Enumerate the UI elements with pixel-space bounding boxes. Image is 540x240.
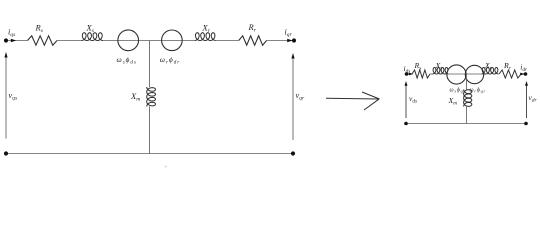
node: right bottom-left terminal: [404, 122, 408, 126]
transform arrow: [326, 97, 379, 100]
inductor X_r: [195, 33, 216, 41]
svg-text:vdr: vdr: [529, 93, 538, 104]
svg-text:Xm: Xm: [448, 96, 458, 107]
stray mark: [164, 166, 167, 167]
svg-text:Rr: Rr: [248, 22, 257, 34]
inductor X_m (right): [464, 90, 472, 107]
voltage arrow v_dr: [526, 83, 528, 118]
current arrow i_dr: [520, 73, 525, 76]
voltage arrow v_ds: [405, 83, 407, 118]
current arrow i_qs: [11, 39, 16, 42]
node: right bottom-right terminal: [524, 122, 528, 126]
svg-text:Xs: Xs: [86, 22, 94, 34]
wire: right middle branch: [465, 74, 467, 90]
svg-text:Rr: Rr: [503, 61, 512, 72]
svg-text:vds: vds: [409, 94, 417, 105]
svg-text:Rs: Rs: [35, 22, 43, 34]
node: left circuit top-right terminal: [292, 38, 296, 42]
inductor X_s: [82, 33, 104, 41]
current arrow i_ds: [409, 73, 414, 76]
wire: right circuit bottom rail: [406, 123, 526, 125]
wire: middle branch (node between sources down to bottom rail): [149, 41, 151, 88]
wire: R_s to X_s: [57, 40, 82, 42]
svg-text:ids: ids: [404, 64, 411, 75]
wire: left circuit bottom rail: [6, 153, 293, 155]
resistor R_s: [28, 36, 58, 45]
svg-text:idr: idr: [520, 62, 528, 73]
svg-text:iqr: iqr: [285, 28, 293, 39]
voltage arrow v_qs: [5, 55, 7, 139]
node: bottom-left terminal: [4, 151, 8, 155]
node: right circuit top-left terminal: [405, 72, 409, 76]
wire: R_r to top-right terminal (right): [521, 73, 526, 75]
resistor R_s (right): [412, 70, 430, 78]
wire: right circuit top rail lead-in: [407, 73, 413, 75]
voltage arrow v_qr: [292, 56, 294, 141]
svg-text:ωrϕqr: ωrϕqr: [470, 88, 486, 94]
wire: R_s to X_s (right): [430, 73, 433, 75]
svg-text:iqs: iqs: [8, 27, 15, 38]
svg-text:vqs: vqs: [9, 91, 18, 102]
svg-text:Xr: Xr: [202, 22, 211, 34]
node: right circuit top-right terminal: [524, 72, 528, 76]
svg-text:ωrϕdr: ωrϕdr: [160, 55, 180, 66]
node: left circuit top-left terminal: [4, 38, 8, 42]
source U4 (w_r phi_qr): [465, 65, 483, 83]
wire: X_r to R_r: [216, 40, 239, 42]
current arrow i_qr: [287, 39, 292, 42]
source U1 (speed voltage w_s phi_ds): [118, 30, 139, 51]
wire: left circuit top rail lead-in: [6, 40, 28, 42]
resistor R_r: [239, 36, 267, 45]
wire: R_r to top-right terminal: [267, 40, 294, 42]
source U3 (w_s phi_qs): [447, 65, 466, 84]
source U2 (speed voltage w_r phi_dr): [162, 30, 183, 51]
inductor X_m: [147, 87, 156, 107]
svg-text:ωsϕds: ωsϕds: [117, 55, 137, 66]
resistor R_r (right): [499, 70, 521, 78]
svg-text:Xm: Xm: [130, 91, 140, 103]
svg-text:vqr: vqr: [296, 91, 305, 102]
node: bottom-right terminal: [291, 151, 295, 155]
inductor X_r (right): [482, 68, 499, 75]
wire: X_s through source circles to X_r: [103, 40, 195, 42]
wire: X_s through source circles to X_r (right): [446, 73, 486, 75]
inductor X_s (right): [433, 68, 449, 75]
